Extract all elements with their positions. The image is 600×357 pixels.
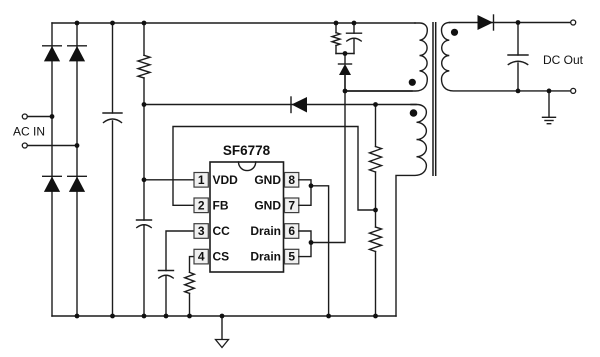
wire Drain to primary bbox=[311, 75, 345, 243]
svg-text:SF6778: SF6778 bbox=[223, 143, 271, 158]
node secondary top bbox=[516, 20, 521, 25]
op IC U1 SF6778 body bbox=[210, 162, 284, 272]
bottom rail bbox=[52, 315, 396, 317]
svg-text:6: 6 bbox=[288, 224, 295, 238]
diode D1 (bridge top-left) bbox=[43, 46, 62, 62]
ground (secondary earth) bbox=[543, 91, 556, 124]
node rail x375 bbox=[373, 314, 378, 319]
wire AC bottom bbox=[28, 145, 78, 147]
svg-text:2: 2 bbox=[198, 199, 205, 213]
node GND bracket bbox=[309, 183, 314, 188]
node top rail x112 bbox=[110, 21, 115, 26]
diode D4 (bridge bottom-right) bbox=[68, 176, 87, 192]
transformer aux winding bbox=[396, 105, 426, 317]
pin 4 box bbox=[194, 249, 208, 264]
resistor R3 (snubber) bbox=[332, 23, 340, 54]
capacitor C1 (bulk) bbox=[103, 23, 122, 316]
wire GND bracket bbox=[299, 180, 311, 206]
svg-text:GND: GND bbox=[254, 173, 281, 187]
svg-text:1: 1 bbox=[198, 173, 205, 187]
wire VDD line bbox=[144, 104, 416, 106]
node rail x328 bbox=[326, 314, 331, 319]
IC notch bbox=[239, 162, 256, 171]
node Drain bracket bbox=[309, 240, 314, 245]
svg-text:Drain: Drain bbox=[250, 224, 281, 238]
node rail x112 bbox=[110, 314, 115, 319]
svg-text:FB: FB bbox=[213, 199, 229, 213]
capacitor C5 (output) bbox=[508, 23, 528, 91]
svg-text:Drain: Drain bbox=[250, 250, 281, 264]
node VDD line x375 bbox=[373, 102, 378, 107]
node AC top bbox=[50, 114, 55, 119]
node top rail x144 bbox=[142, 21, 147, 26]
node rail x166 bbox=[164, 314, 169, 319]
node VDD line x144 bbox=[142, 102, 147, 107]
node secondary bottom bbox=[516, 89, 521, 94]
node earth bbox=[547, 89, 552, 94]
node VDD pin bbox=[142, 177, 147, 182]
AC IN terminal bottom bbox=[22, 143, 27, 148]
DC Out terminal bottom bbox=[571, 88, 576, 93]
zener D6 bbox=[339, 54, 352, 92]
node snubber join bbox=[343, 51, 348, 56]
DC Out terminal top bbox=[571, 20, 576, 25]
transformer secondary winding bbox=[442, 23, 571, 91]
svg-text:CS: CS bbox=[213, 250, 230, 264]
svg-text:3: 3 bbox=[198, 224, 205, 238]
capacitor C2 (VDD) bbox=[137, 220, 152, 316]
node rail x77 bbox=[75, 314, 80, 319]
node primary bottom bbox=[343, 89, 348, 94]
wire FB loop bbox=[173, 127, 376, 211]
transformer primary winding bbox=[345, 23, 427, 91]
wire VDD pin stub bbox=[144, 179, 194, 181]
diode D2 (bridge top-right) bbox=[68, 46, 87, 62]
node top rail x354 bbox=[352, 21, 357, 26]
pin 7 box bbox=[285, 198, 299, 213]
pin 6 box bbox=[285, 224, 299, 239]
pin 1 box bbox=[194, 173, 208, 188]
top rail bbox=[52, 22, 415, 24]
node rail x144 bbox=[142, 314, 147, 319]
svg-text:7: 7 bbox=[288, 199, 295, 213]
svg-text:DC Out: DC Out bbox=[543, 53, 584, 67]
wire GND to rail bbox=[311, 186, 329, 316]
svg-text:5: 5 bbox=[288, 250, 295, 264]
capacitor C4 (snubber) bbox=[347, 23, 362, 54]
wire CC elbow bbox=[166, 231, 194, 271]
pin 5 box bbox=[285, 249, 299, 264]
ground (primary) bbox=[216, 316, 229, 348]
resistor R4 (divider top) bbox=[370, 105, 382, 228]
wire snubber join bbox=[336, 53, 354, 55]
svg-text:4: 4 bbox=[198, 250, 205, 264]
pin 2 box bbox=[194, 198, 208, 213]
pin 3 box bbox=[194, 224, 208, 239]
diode D7 (output) bbox=[478, 15, 494, 30]
svg-text:VDD: VDD bbox=[213, 173, 239, 187]
wire bridge leg 1 bbox=[51, 23, 53, 316]
capacitor C3 (CC) bbox=[159, 271, 174, 317]
node AC bottom bbox=[75, 143, 80, 148]
svg-text:8: 8 bbox=[288, 173, 295, 187]
pin 8 box bbox=[285, 173, 299, 188]
resistor R5 (divider bottom) bbox=[370, 227, 382, 316]
svg-text:AC IN: AC IN bbox=[13, 125, 45, 139]
wire secondary top bbox=[450, 22, 571, 24]
node rail x189 bbox=[187, 314, 192, 319]
wire bridge leg 2 bbox=[76, 23, 78, 316]
svg-text:CC: CC bbox=[213, 224, 231, 238]
wire primary bottom bbox=[345, 90, 412, 92]
wire Drain bracket bbox=[299, 231, 311, 257]
node rail x222 bbox=[220, 314, 225, 319]
node top rail x77 bbox=[75, 21, 80, 26]
diode D3 (bridge bottom-left) bbox=[43, 176, 62, 192]
resistor R2 (CS sense) bbox=[185, 272, 195, 316]
AC IN terminal top bbox=[22, 114, 27, 119]
wire AC top bbox=[28, 116, 53, 118]
wire CS elbow bbox=[190, 257, 195, 272]
diode D5 (VDD rectifier) bbox=[291, 97, 307, 113]
transformer core bbox=[433, 22, 436, 176]
svg-text:GND: GND bbox=[254, 199, 281, 213]
resistor R1 (startup) bbox=[138, 23, 150, 220]
node FB divider bbox=[373, 208, 378, 213]
node top rail x336 bbox=[334, 21, 339, 26]
